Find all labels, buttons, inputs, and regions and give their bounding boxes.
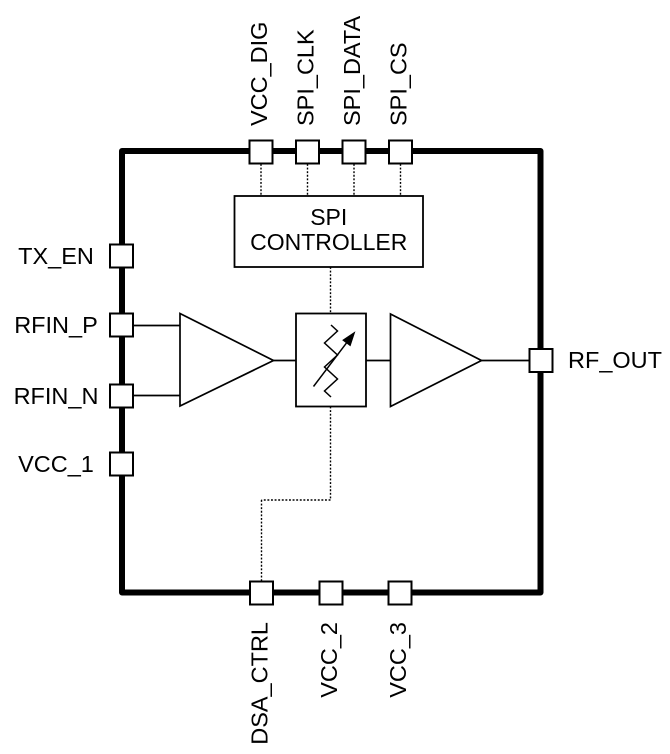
wire dotted: VCC_DIG pin to SPI controller <box>260 164 262 196</box>
wire RFIN_P to amplifier A1 <box>134 325 182 327</box>
label RF_OUT <box>568 347 662 373</box>
pin TX_EN <box>110 245 133 268</box>
chip outline <box>122 151 541 593</box>
attenuator DSA <box>296 314 366 407</box>
svg-text:SPI_DATA: SPI_DATA <box>339 16 365 126</box>
pin RFIN_P <box>110 314 133 337</box>
wire dotted: SPI_CS pin to SPI controller <box>400 164 402 196</box>
pin DSA_CTRL <box>250 582 273 605</box>
pin SPI_CS <box>389 141 412 164</box>
wire RFIN_N to amplifier A1 <box>134 395 182 397</box>
svg-text:CONTROLLER: CONTROLLER <box>250 229 407 255</box>
label DSA_CTRL <box>247 622 273 745</box>
pin VCC_DIG <box>250 141 273 164</box>
label SPI_CS <box>386 42 412 126</box>
wire dotted: SPI_DATA pin to SPI controller <box>353 164 355 196</box>
label SPI_DATA <box>339 16 365 126</box>
amplifier A1 <box>180 314 274 407</box>
amplifier A2 <box>391 314 482 407</box>
pin SPI_DATA <box>343 141 366 164</box>
pin VCC_2 <box>320 582 343 605</box>
label VCC_2 <box>316 622 342 698</box>
pin VCC_1 <box>110 453 133 476</box>
wire dotted: SPI_CLK pin to SPI controller <box>307 164 309 196</box>
svg-text:VCC_2: VCC_2 <box>316 622 342 698</box>
pin RFIN_N <box>110 385 133 408</box>
label VCC_1 <box>18 451 94 477</box>
label TX_EN <box>18 243 94 269</box>
wire A1 to attenuator <box>273 360 296 362</box>
label VCC_DIG <box>246 22 272 126</box>
svg-text:VCC_1: VCC_1 <box>18 451 94 477</box>
svg-text:RFIN_P: RFIN_P <box>14 312 98 338</box>
label VCC_3 <box>385 622 411 698</box>
label RFIN_P <box>14 312 98 338</box>
wire attenuator to amplifier A2 <box>366 360 391 362</box>
svg-text:VCC_DIG: VCC_DIG <box>246 22 272 126</box>
wire TX dotted: SPI box to attenuator <box>330 267 332 314</box>
svg-text:SPI: SPI <box>310 204 347 230</box>
label RFIN_N <box>14 383 99 409</box>
svg-text:DSA_CTRL: DSA_CTRL <box>247 622 273 745</box>
svg-text:SPI_CS: SPI_CS <box>386 42 412 126</box>
svg-text:RFIN_N: RFIN_N <box>14 383 99 409</box>
label SPI_CLK <box>293 29 319 126</box>
svg-text:VCC_3: VCC_3 <box>385 622 411 698</box>
svg-text:RF_OUT: RF_OUT <box>568 347 662 373</box>
pin SPI_CLK <box>296 141 319 164</box>
pin VCC_3 <box>389 582 412 605</box>
SPI controller U1 <box>235 196 424 267</box>
wire dotted: attenuator to DSA_CTRL jog <box>262 407 331 582</box>
svg-text:SPI_CLK: SPI_CLK <box>293 29 319 126</box>
pin RF_OUT <box>530 349 553 372</box>
wire A2 to RF_OUT pin <box>481 360 529 362</box>
svg-text:TX_EN: TX_EN <box>18 243 94 269</box>
